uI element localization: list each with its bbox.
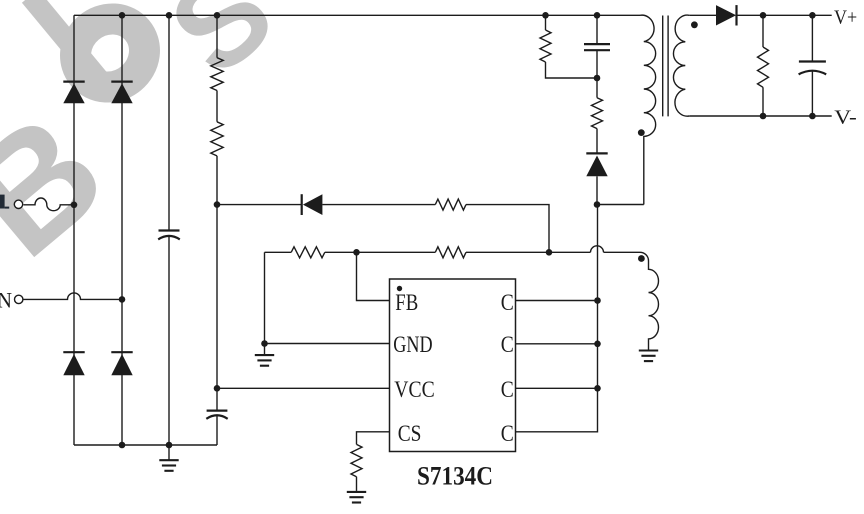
- resistor R6 (row2 left): [291, 247, 325, 258]
- wire GND pin stub: [265, 343, 390, 345]
- junction dot bottom rail / bulk cap: [166, 442, 173, 449]
- svg-text:CS: CS: [398, 421, 422, 446]
- junction dot top rail / divider: [214, 12, 221, 19]
- wire top rail: [74, 14, 640, 16]
- diode D1 (bridge, top left): [63, 80, 84, 82]
- capacitor C4 plate top: [799, 60, 826, 62]
- wire load resistor column: [762, 15, 764, 116]
- svg-text:FB: FB: [395, 290, 418, 315]
- wire bottom rail: [74, 444, 217, 446]
- svg-text:C: C: [501, 332, 514, 357]
- wire CS pin stub: [357, 432, 390, 445]
- wire row2 to hop: [466, 251, 591, 253]
- junction dot clamp RC join: [594, 75, 601, 82]
- junction dot V+ rail / load R: [760, 12, 767, 19]
- junction dot V- rail / output cap: [809, 113, 816, 120]
- capacitor C4 plate bottom (curved): [799, 71, 827, 75]
- wire divider column: [216, 15, 218, 445]
- diode D5 (clamp): [586, 152, 607, 154]
- junction dot drain bus row1: [594, 297, 601, 304]
- resistor R7 (row2 right): [435, 247, 466, 258]
- capacitor C3 plates: [584, 44, 610, 50]
- wire clamp cap top lead: [596, 15, 598, 44]
- svg-text:GND: GND: [393, 332, 432, 357]
- wire snubber resistor top lead: [545, 15, 547, 30]
- inductor L1 auxiliary winding: [640, 252, 659, 349]
- transformer T1 primary winding: [640, 15, 656, 204]
- junction dot drain bus row2: [594, 341, 601, 348]
- wire row2 left corner: [265, 251, 292, 253]
- U1 pin-1 marker dot: [397, 286, 402, 291]
- junction dot FB tap: [353, 249, 360, 256]
- ground (bottom rail): [168, 445, 170, 460]
- junction dot row1/row2 join: [546, 249, 553, 256]
- transformer T1 core: [663, 16, 668, 117]
- wire CS resistor lead: [356, 477, 358, 491]
- resistor R4 (clamp series): [592, 98, 603, 129]
- svg-text:V-: V-: [834, 106, 857, 128]
- diode D7 (output rectifier): [716, 5, 736, 25]
- wire V+ rail: [737, 14, 832, 16]
- wire bulk-cap column top: [168, 15, 170, 230]
- wire GND branch vertical: [264, 252, 266, 343]
- diode D3 (bridge, bottom left): [63, 351, 84, 353]
- wire row2 to aux winding: [604, 251, 641, 253]
- junction dot drain bus row3: [594, 385, 601, 392]
- wire FB branch: [357, 252, 390, 300]
- capacitor C1 plate bottom (curved): [158, 236, 180, 240]
- wire bulk-cap column bottom: [168, 236, 170, 446]
- capacitor C1 plate top: [159, 229, 180, 231]
- resistor R3 (clamp): [540, 30, 551, 62]
- junction dot GND node: [261, 340, 268, 347]
- svg-text:V+: V+: [834, 6, 857, 28]
- transformer T1 primary phase dot: [638, 129, 645, 136]
- diode D6 (feed, pointing left): [301, 194, 303, 215]
- junction dot drain node: [594, 201, 601, 208]
- diode D4 (bridge, bottom right): [111, 351, 132, 353]
- junction dot V+ rail / output cap: [809, 12, 816, 19]
- diode D2 (bridge, top right): [111, 80, 132, 82]
- resistor R8 (CS): [351, 444, 362, 476]
- transformer T1 secondary winding: [673, 15, 689, 116]
- terminal N circle: [15, 295, 23, 303]
- junction dot L node: [71, 202, 78, 209]
- wire row1 middle segment: [322, 204, 435, 206]
- svg-text:B: B: [0, 79, 136, 290]
- junction dot divider tap: [214, 201, 221, 208]
- transformer T1 secondary phase dot: [691, 21, 698, 28]
- terminal L circle: [14, 200, 22, 208]
- resistor R2 (divider lower): [211, 122, 223, 156]
- watermark: [0, 0, 299, 290]
- svg-text:C: C: [501, 290, 514, 315]
- wire drain pin stub row1: [516, 300, 598, 302]
- fuse F1: [24, 198, 75, 211]
- op-amp/controller U1 S7134C body: [390, 279, 516, 452]
- junction dot bottom rail / N leg: [119, 442, 126, 449]
- svg-text:S7134C: S7134C: [417, 462, 493, 491]
- ground (aux winding): [648, 349, 650, 351]
- junction dot top rail / clamp R: [542, 12, 549, 19]
- junction dot VCC node: [214, 385, 221, 392]
- svg-text:C: C: [501, 377, 514, 402]
- junction dot top rail / bulk cap: [166, 12, 173, 19]
- resistor R5 (row1): [435, 199, 466, 210]
- resistor R1 (divider upper): [211, 58, 223, 91]
- wire hop over drain bus: [591, 246, 604, 252]
- wire secondary to output diode: [689, 14, 716, 16]
- inductor L1 phase dot: [638, 255, 645, 262]
- wire drain pin stub row3: [516, 387, 598, 389]
- junction dot N node: [119, 296, 126, 303]
- capacitor C2 plate bottom (curved): [206, 415, 227, 419]
- svg-text:C: C: [501, 421, 514, 446]
- junction dot V- rail / load R: [760, 113, 767, 120]
- wire second bridge column (N leg): [121, 15, 123, 445]
- wire clamp cap bottom lead: [596, 50, 598, 97]
- svg-text:N: N: [0, 288, 12, 313]
- wire left bridge column (L leg): [73, 15, 75, 445]
- ground (CS resistor): [356, 491, 358, 492]
- wire clamp diode to drain node: [596, 176, 598, 204]
- svg-text:VCC: VCC: [394, 377, 434, 402]
- wire drain pin stub row4: [516, 205, 598, 432]
- junction dot top rail / clamp C: [594, 12, 601, 19]
- wire drain node to primary: [597, 204, 644, 206]
- wire row1 right segment with drop: [466, 205, 549, 253]
- ground (GND pin): [264, 344, 266, 356]
- wire output cap column: [811, 15, 813, 116]
- capacitor C2 plate top: [207, 410, 228, 412]
- wire clamp resistor to diode: [596, 129, 598, 154]
- wire N row with hop over L leg: [23, 293, 122, 300]
- terminal L label (clipped at edge): [0, 195, 5, 209]
- wire drain pin stub row2: [516, 343, 598, 345]
- wire row1 left segment: [217, 204, 302, 206]
- wire snubber resistor bottom lead: [546, 62, 598, 78]
- resistor R9 (load): [758, 47, 769, 87]
- junction dot top rail / N leg: [119, 12, 126, 19]
- wire row2 middle: [325, 251, 436, 253]
- wire V- rail: [689, 115, 831, 117]
- wire VCC pin stub: [217, 387, 390, 389]
